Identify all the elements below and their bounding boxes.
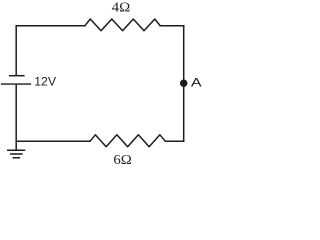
wire bottom left segment to junction [16,140,91,142]
resistor R2 (6 ohm) zigzag [90,135,165,147]
battery V1 short top plate (negative) [9,75,25,77]
svg-text:6Ω: 6Ω [113,153,131,168]
battery V1 long bottom plate (positive) [1,83,31,85]
svg-text:4Ω: 4Ω [112,1,131,16]
wire bottom right segment [165,140,185,142]
svg-text:A: A [191,76,202,90]
wire right vertical (through node A) [183,25,185,142]
wire top right segment [159,25,184,27]
wire left vertical (battery positive terminal up to top-left corner) [15,25,17,75]
svg-text:12V: 12V [34,74,57,88]
node A junction dot [180,79,188,87]
resistor R1 (4 ohm) zigzag [85,19,160,31]
ground symbol (three bars) [7,150,25,158]
wire top left segment [16,25,85,27]
wire battery bottom plate through junction to ground [15,85,17,151]
